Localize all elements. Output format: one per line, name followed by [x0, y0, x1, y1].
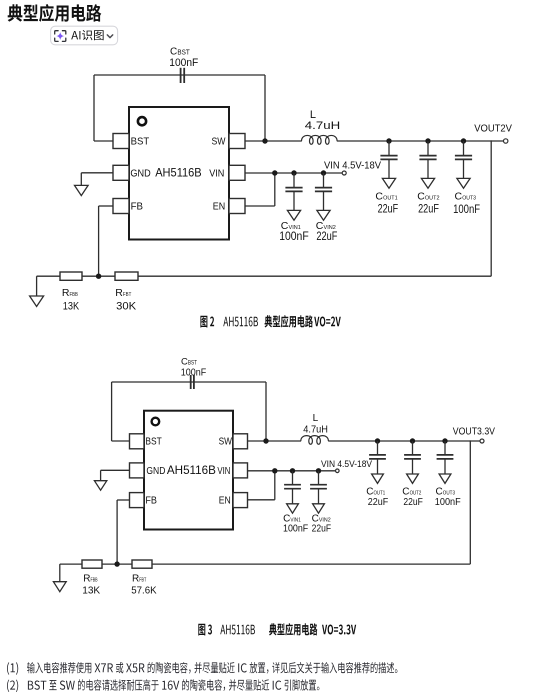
svg-text:AH5116B: AH5116B — [155, 166, 202, 180]
svg-text:22uF: 22uF — [368, 496, 389, 508]
svg-text:22uF: 22uF — [312, 522, 332, 534]
svg-text:BST: BST — [177, 50, 190, 57]
svg-text:100nF: 100nF — [283, 522, 308, 534]
svg-text:13K: 13K — [63, 300, 80, 312]
svg-text:AH5116B: AH5116B — [167, 463, 216, 477]
svg-text:EN: EN — [219, 496, 231, 507]
svg-text:22uF: 22uF — [316, 231, 337, 243]
svg-text:BST: BST — [188, 360, 197, 367]
svg-text:FBB: FBB — [91, 578, 98, 584]
svg-text:BST: BST — [145, 437, 161, 448]
svg-text:L: L — [313, 413, 319, 424]
svg-text:GND: GND — [130, 167, 151, 179]
svg-text:VOUT3.3V: VOUT3.3V — [453, 427, 495, 438]
svg-text:OUT2: OUT2 — [425, 196, 440, 202]
svg-text:OUT1: OUT1 — [383, 196, 398, 202]
svg-text:EN: EN — [213, 201, 225, 213]
svg-text:30K: 30K — [116, 300, 137, 312]
svg-text:100nF: 100nF — [279, 231, 309, 243]
svg-text:57.6K: 57.6K — [131, 584, 156, 596]
svg-text:FBT: FBT — [123, 292, 132, 298]
svg-text:GND: GND — [146, 466, 165, 477]
svg-text:VIN: VIN — [209, 167, 224, 179]
svg-text:4.7uH: 4.7uH — [305, 120, 340, 132]
svg-text:FB: FB — [131, 201, 143, 213]
svg-text:FBT: FBT — [139, 578, 146, 584]
svg-text:R: R — [83, 574, 90, 585]
svg-text:OUT3: OUT3 — [462, 196, 476, 202]
svg-text:22uF: 22uF — [403, 496, 423, 508]
svg-text:R: R — [132, 574, 139, 585]
svg-text:4.7uH: 4.7uH — [303, 424, 328, 435]
svg-text:VIN: VIN — [217, 466, 230, 477]
svg-text:VIN 4.5V-18V: VIN 4.5V-18V — [321, 459, 373, 470]
svg-text:22uF: 22uF — [418, 203, 439, 215]
svg-text:100nF: 100nF — [435, 496, 461, 508]
svg-text:BST: BST — [131, 136, 150, 148]
svg-text:100nF: 100nF — [169, 57, 198, 69]
svg-text:SW: SW — [219, 437, 233, 448]
svg-text:100nF: 100nF — [181, 367, 206, 378]
svg-text:SW: SW — [212, 136, 226, 148]
svg-text:100nF: 100nF — [453, 204, 480, 216]
svg-text:FB: FB — [145, 496, 157, 507]
svg-text:22uF: 22uF — [378, 203, 399, 215]
svg-text:VOUT2V: VOUT2V — [474, 123, 512, 135]
svg-text:VIN 4.5V-18V: VIN 4.5V-18V — [324, 160, 381, 172]
svg-text:FBB: FBB — [70, 292, 78, 298]
svg-text:13K: 13K — [82, 584, 100, 596]
